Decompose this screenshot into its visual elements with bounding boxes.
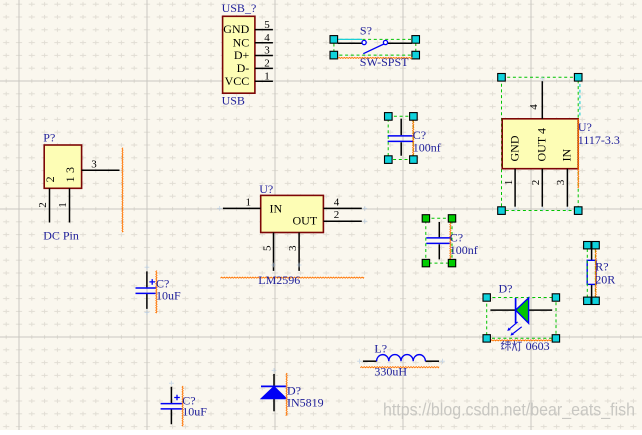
capacitor C? 100nf #2 <box>426 222 450 259</box>
svg-text:20R: 20R <box>595 272 615 286</box>
svg-text:SW-SPST: SW-SPST <box>360 55 409 69</box>
pin 3 of U? <box>287 233 299 271</box>
svg-text:10uF: 10uF <box>156 288 181 302</box>
resistor R? body <box>587 249 596 297</box>
svg-text:VCC: VCC <box>225 74 250 88</box>
selection outline of LED D? <box>487 298 556 339</box>
error squiggle on IN5819 <box>286 373 287 415</box>
svg-text:10uF: 10uF <box>182 405 207 419</box>
pin 3 of 1117 <box>555 169 567 207</box>
svg-text:1: 1 <box>57 202 69 208</box>
pin 1 of U? <box>223 196 261 208</box>
svg-text:5: 5 <box>261 245 273 251</box>
svg-text:GND: GND <box>508 135 522 161</box>
svg-text:1: 1 <box>245 196 251 208</box>
error squiggle under S? <box>338 57 412 58</box>
svg-text:0603: 0603 <box>526 339 550 353</box>
svg-text:IN5819: IN5819 <box>287 396 324 410</box>
pin 4 of 1117 <box>528 81 542 119</box>
regulator U? LM2596 body <box>261 195 324 232</box>
pin 2 (D-) of USB_? <box>237 58 273 75</box>
svg-text:D+: D+ <box>234 48 250 62</box>
error squiggle under LM2596 <box>220 277 364 278</box>
wire LED right lead <box>529 309 553 311</box>
svg-text:U?: U? <box>259 182 273 196</box>
svg-text:GND: GND <box>223 22 249 36</box>
regulator U? 1117-3.3 body <box>502 119 578 169</box>
svg-text:4: 4 <box>334 196 340 208</box>
pin 5 (GND) of USB_? <box>223 19 273 36</box>
pin 1 of 1117 <box>503 169 515 207</box>
svg-text:3: 3 <box>63 167 77 173</box>
capacitor C? 10uF #1 <box>136 271 157 309</box>
LED D? symbol <box>507 298 528 336</box>
switch S? contacts and lever <box>362 40 388 53</box>
error squiggle on 1117 <box>578 119 579 188</box>
wire switch left lead <box>338 42 362 44</box>
svg-text:1: 1 <box>264 70 270 82</box>
error squiggle on C? #2 <box>450 219 451 264</box>
svg-text:100nf: 100nf <box>413 140 441 154</box>
error squiggle on 10uF #1 <box>156 271 157 313</box>
svg-text:1: 1 <box>63 176 77 182</box>
comment 绿灯 0603 (drawn glyphs) <box>501 341 522 352</box>
selection handles of 1117 <box>498 74 582 215</box>
svg-text:100nf: 100nf <box>450 243 478 257</box>
svg-text:2: 2 <box>264 58 270 70</box>
selection outline of R? <box>587 249 595 297</box>
svg-text:L?: L? <box>374 341 387 355</box>
svg-text:330uH: 330uH <box>374 364 407 378</box>
svg-text:2: 2 <box>334 209 340 221</box>
pin 5 of U? <box>261 233 273 271</box>
svg-text:2: 2 <box>530 180 542 186</box>
selection outline of S? <box>334 39 416 55</box>
svg-text:3: 3 <box>264 45 270 57</box>
selection outline of C? 100nf #1 <box>388 116 413 159</box>
pin 2 of U? <box>323 209 361 221</box>
node markers <box>145 76 570 385</box>
pin 4 of U? <box>323 196 361 208</box>
selection handles of LED <box>483 294 560 342</box>
svg-text:LM2596: LM2596 <box>258 273 300 287</box>
error squiggle near P? <box>122 148 123 232</box>
diode D? IN5819 symbol <box>261 386 287 398</box>
pin 3 of P? <box>82 159 120 171</box>
error squiggle on R? <box>595 249 596 297</box>
svg-text:3: 3 <box>287 245 299 251</box>
error squiggle on 10uF #2 <box>182 386 183 426</box>
selection outline of U? 1117 <box>502 77 579 210</box>
error squiggle under LED <box>490 340 554 341</box>
svg-text:4: 4 <box>528 104 540 110</box>
connector USB_? body <box>223 16 255 93</box>
pin 3 (D+) of USB_? <box>234 45 273 62</box>
wire diode top lead <box>273 374 275 387</box>
svg-text:3: 3 <box>555 179 567 185</box>
wire inductor right lead <box>425 360 439 362</box>
pin 1 of P? <box>57 188 69 222</box>
selected wire highlight right of 1117 <box>579 84 581 118</box>
wire diode bottom lead <box>273 399 275 412</box>
pin 2 of 1117 <box>530 169 542 207</box>
wire inductor left lead <box>363 360 377 362</box>
svg-text:3: 3 <box>91 159 97 171</box>
svg-text:1: 1 <box>503 180 515 186</box>
pin 1 (VCC) of USB_? <box>225 70 273 87</box>
selection handles of S? <box>330 36 420 59</box>
svg-text:4: 4 <box>264 32 270 44</box>
svg-text:OUT 4: OUT 4 <box>534 128 548 161</box>
connector P? body <box>44 145 81 188</box>
pin 2 of P? <box>37 188 49 222</box>
svg-text:D?: D? <box>499 281 513 295</box>
error squiggle on C? #1 <box>413 120 414 156</box>
selection handles of C? #1 <box>385 113 418 164</box>
svg-text:5: 5 <box>264 19 270 31</box>
pin 4 (NC) of USB_? <box>233 32 273 49</box>
svg-text:https://blog.csdn.net/bear_eat: https://blog.csdn.net/bear_eats_fish <box>383 400 635 421</box>
svg-text:USB: USB <box>222 93 245 107</box>
capacitor C? 100nf #1 <box>388 119 414 156</box>
svg-text:P?: P? <box>43 130 55 144</box>
error squiggle under L? <box>360 367 439 368</box>
inductor L? coil <box>377 355 426 362</box>
svg-text:S?: S? <box>360 23 372 37</box>
svg-text:2: 2 <box>43 176 57 182</box>
selected wire highlight <box>338 38 362 40</box>
svg-text:DC Pin: DC Pin <box>43 228 79 242</box>
svg-text:U?: U? <box>578 120 592 134</box>
svg-text:1117-3.3: 1117-3.3 <box>578 133 620 147</box>
capacitor C? 10uF #2 <box>161 387 183 424</box>
svg-text:2: 2 <box>37 202 49 208</box>
svg-text:IN: IN <box>560 149 574 162</box>
svg-text:USB_?: USB_? <box>222 1 257 15</box>
wire switch right lead <box>388 42 412 44</box>
svg-text:IN: IN <box>270 201 283 215</box>
selection handles (green) of C? #2 <box>422 215 455 267</box>
svg-text:OUT: OUT <box>293 213 318 227</box>
wire LED left lead <box>490 309 515 311</box>
selection handles of R? <box>584 242 600 305</box>
selection outline of C? 100nf #2 <box>426 218 452 263</box>
